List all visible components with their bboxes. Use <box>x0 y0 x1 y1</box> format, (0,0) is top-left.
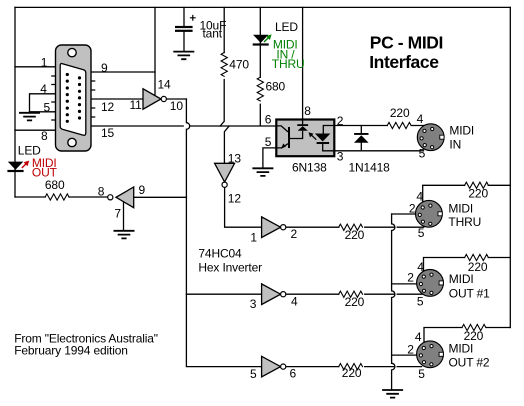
svg-text:5: 5 <box>250 367 257 381</box>
svg-text:4: 4 <box>40 82 47 96</box>
svg-text:2: 2 <box>291 227 298 241</box>
wire 470 branch upper <box>220 7 224 126</box>
svg-text:6N138: 6N138 <box>292 161 327 175</box>
wire ground bus with hops <box>392 214 395 389</box>
ground capacitor <box>173 52 194 60</box>
resistor R1 470 <box>221 53 227 77</box>
LED D2 MIDI IN/THRU <box>253 35 269 46</box>
svg-text:tant: tant <box>203 26 223 40</box>
ground 6N138 pin 5 <box>252 168 273 176</box>
svg-text:MIDI: MIDI <box>448 202 473 216</box>
op-amp U1A inverter 11/10 <box>143 89 166 109</box>
LED D1 MIDI OUT <box>7 162 23 172</box>
wire MIDI OUT1 pin 4 to +5 <box>424 258 511 272</box>
resistor R8 220 out1 +5 <box>465 254 489 260</box>
svg-text:IN: IN <box>449 138 461 152</box>
svg-text:5: 5 <box>419 146 426 160</box>
svg-text:74HC04: 74HC04 <box>198 246 242 260</box>
svg-text:MIDI: MIDI <box>449 341 474 355</box>
svg-text:680: 680 <box>266 80 286 94</box>
svg-text:THRU: THRU <box>448 215 481 229</box>
svg-text:MIDI: MIDI <box>449 124 474 138</box>
resistor R10 220 out2 +5 <box>462 324 486 330</box>
resistor R9 220 out2 signal <box>339 364 363 370</box>
svg-text:8: 8 <box>41 129 48 143</box>
LED D2 green arrow <box>264 34 272 42</box>
svg-text:220: 220 <box>342 366 362 380</box>
resistor R6 220 thru +5 <box>465 182 489 188</box>
wire right +5V bus <box>509 7 511 327</box>
svg-text:5: 5 <box>418 367 425 381</box>
svg-text:5: 5 <box>265 135 272 149</box>
wire gate3 input from bus <box>186 293 261 295</box>
photodiode internal <box>297 124 308 131</box>
svg-text:4: 4 <box>416 190 423 204</box>
wire gate6 output to MIDI OUT2 pin 5 <box>286 366 422 368</box>
wire gate2 output to MIDI THRU pin 5 <box>286 226 424 228</box>
svg-text:3: 3 <box>250 297 257 311</box>
svg-text:8: 8 <box>98 185 105 199</box>
svg-text:5: 5 <box>418 226 425 240</box>
svg-text:220: 220 <box>345 228 365 242</box>
wire DB15 pin 5 to ground stub <box>30 111 57 113</box>
svg-text:1N1418: 1N1418 <box>349 161 391 175</box>
wire 6N138 pin 2 to MIDI IN pin 4 <box>334 125 424 127</box>
light arrow internal <box>312 135 317 140</box>
LED D1 red arrow <box>22 161 29 168</box>
svg-text:OUT #1: OUT #1 <box>449 286 490 300</box>
wire gate8 output to 680 and LED <box>15 196 108 198</box>
svg-text:1: 1 <box>250 231 257 245</box>
svg-text:13: 13 <box>228 151 242 165</box>
svg-text:220: 220 <box>468 260 488 274</box>
resistor R2 680 top <box>257 77 263 101</box>
wire gate9 input from bus <box>134 196 187 198</box>
svg-text:10: 10 <box>170 99 184 113</box>
resistor R7 220 out1 signal <box>339 291 363 297</box>
wire gate12 output to gate1 input <box>225 187 262 227</box>
svg-text:LED: LED <box>275 20 298 34</box>
wire LED/680 branch <box>259 7 261 126</box>
wire DB15 pin 15 to 6N138 pin 6 <box>91 125 277 127</box>
wire 6N138 pin 3 to MIDI IN pin 5 <box>334 150 423 152</box>
svg-text:7: 7 <box>114 206 121 220</box>
svg-text:11: 11 <box>130 98 143 112</box>
input LED internal <box>315 134 331 145</box>
svg-text:470: 470 <box>229 57 249 71</box>
resistor R3 680 left <box>45 194 69 200</box>
capacitor C1 10uF plates <box>175 26 193 32</box>
svg-text:2: 2 <box>407 342 414 356</box>
wire gate4 output to MIDI OUT1 pin 5 <box>286 293 422 295</box>
wire inverter 13 input jog <box>224 126 229 163</box>
svg-text:MIDI: MIDI <box>449 272 474 286</box>
svg-text:15: 15 <box>101 126 115 140</box>
svg-text:9: 9 <box>101 61 108 75</box>
wire DB15 pin 12 to inverter input 11 <box>91 98 144 100</box>
wire MIDI THRU pin 4 to +5 <box>423 185 511 203</box>
svg-text:220: 220 <box>464 329 484 343</box>
svg-text:4: 4 <box>417 112 424 126</box>
svg-text:5: 5 <box>417 294 424 308</box>
wire U1 pin 7 to ground <box>123 202 125 230</box>
svg-text:4: 4 <box>291 294 298 308</box>
capacitor C1 plus sign <box>190 15 196 21</box>
connector J4 MIDI OUT1 <box>417 270 444 297</box>
wire inverter output 10 to bus <box>167 98 187 100</box>
svg-text:8: 8 <box>304 104 311 118</box>
wire DB15 pin 8 <box>15 129 56 131</box>
wire MIDI OUT2 pin 2 <box>392 354 418 356</box>
wire DB15 pin 4 to ground stub <box>30 94 57 113</box>
svg-text:THRU: THRU <box>272 57 305 71</box>
wire MIDI OUT2 pin 4 to +5 <box>424 328 510 342</box>
svg-text:2: 2 <box>337 114 344 128</box>
svg-text:5: 5 <box>44 100 51 114</box>
svg-text:14: 14 <box>158 78 172 92</box>
op-amp U1E inverter 3/4 <box>262 284 286 305</box>
connector J5 MIDI OUT2 <box>417 341 444 368</box>
svg-text:12: 12 <box>228 191 242 205</box>
op-amp U1B inverter 13/12 <box>215 163 235 187</box>
optocoupler U2 6N138 <box>276 120 334 157</box>
transistor internal <box>288 127 290 148</box>
svg-text:Interface: Interface <box>369 52 439 72</box>
svg-text:OUT #2: OUT #2 <box>449 356 490 370</box>
ground U1 pin 7 <box>114 231 135 239</box>
wire capacitor branch <box>183 7 185 50</box>
svg-text:Hex Inverter: Hex Inverter <box>198 261 262 275</box>
connector J3 MIDI THRU <box>416 200 443 227</box>
svg-text:February 1994 edition: February 1994 edition <box>14 344 128 358</box>
svg-text:220: 220 <box>468 187 488 201</box>
wire central bus with hop <box>186 99 261 367</box>
svg-text:PC - MIDI: PC - MIDI <box>370 33 443 53</box>
connector J2 MIDI IN <box>417 124 444 151</box>
wire top +5V rail <box>15 6 510 8</box>
resistor R4 220 midi in <box>387 122 411 128</box>
svg-text:680: 680 <box>45 178 65 192</box>
wire 6N138 pin 8 <box>302 7 304 119</box>
diode D3 1N1418 <box>354 133 369 143</box>
wire 6N138 pin 5 to ground <box>263 148 276 168</box>
svg-text:220: 220 <box>345 295 365 309</box>
svg-text:12: 12 <box>101 100 115 114</box>
svg-text:6: 6 <box>265 113 272 127</box>
connector J1 DB15 <box>51 45 95 151</box>
wire DB15 pin 9 to +5 rail <box>91 71 156 73</box>
ground output connectors <box>382 390 403 398</box>
op-amp U1D inverter 1/2 <box>262 217 286 238</box>
svg-text:6: 6 <box>290 367 297 381</box>
ground DB15 pins 4/5 <box>19 113 40 121</box>
svg-text:220: 220 <box>390 106 410 120</box>
wire U1 pin 14 power <box>154 7 156 95</box>
svg-text:4: 4 <box>415 330 422 344</box>
op-amp U1F inverter 5/6 <box>262 356 286 377</box>
svg-text:2: 2 <box>407 271 414 285</box>
wire diode stub <box>360 126 362 151</box>
svg-text:2: 2 <box>409 202 416 216</box>
svg-text:1: 1 <box>41 55 48 69</box>
wire DB15 pin 1 <box>15 66 56 68</box>
wire MIDI THRU pin 2 <box>392 213 418 215</box>
wire left vertical (LED MIDI OUT branch) <box>14 7 16 197</box>
svg-text:9: 9 <box>139 183 146 197</box>
op-amp U1C inverter 9/8 <box>108 187 134 208</box>
svg-text:3: 3 <box>337 149 344 163</box>
resistor R5 220 thru signal <box>339 224 363 230</box>
wire MIDI OUT1 pin 2 <box>392 283 418 285</box>
svg-text:4: 4 <box>417 260 424 274</box>
